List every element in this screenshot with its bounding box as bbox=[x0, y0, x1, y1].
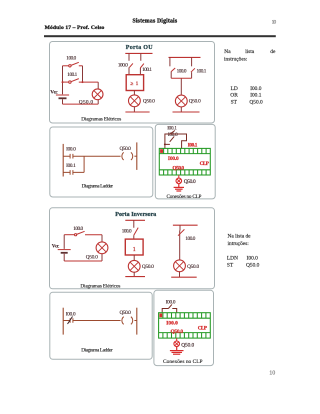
svg-text:Porta Inversora: Porta Inversora bbox=[115, 212, 156, 218]
E1: lamp L5 (Q50.0) bbox=[96, 242, 108, 254]
panel: electrical diagrams OU bbox=[50, 42, 215, 124]
E2: wire gate to lamp bbox=[133, 255, 135, 261]
svg-text:I00.0: I00.0 bbox=[166, 300, 176, 306]
D2: wire gate to lamp bbox=[133, 91, 135, 95]
clp2: output wire bbox=[176, 338, 178, 341]
D3: switch S5 (100.0) bbox=[169, 57, 171, 66]
svg-text:100.1: 100.1 bbox=[197, 69, 207, 75]
clp1: switch I00.0 wiring bbox=[165, 136, 174, 144]
ladder1: coil Q50.0 bbox=[122, 152, 137, 160]
svg-text:100.0: 100.0 bbox=[73, 226, 83, 232]
svg-text:Conexões no CLP: Conexões no CLP bbox=[167, 194, 202, 200]
svg-text:Diagramas Elétricos: Diagramas Elétricos bbox=[80, 283, 120, 289]
E1: bottom wire bbox=[64, 253, 102, 261]
D1: switch S2 (100.1) bbox=[63, 79, 99, 84]
D1: wire left vertical + branch join bbox=[63, 66, 99, 95]
svg-text:Módulo 17 – Prof. Celso: Módulo 17 – Prof. Celso bbox=[45, 25, 105, 31]
clp1: PLC body U1 bbox=[159, 148, 210, 175]
D1: lamp L1 (Q50.0) bbox=[92, 89, 103, 100]
D2: switch S4 input wire bbox=[139, 53, 141, 74]
svg-text:lista: lista bbox=[245, 49, 255, 55]
panel: CLP connections OU bbox=[155, 124, 215, 198]
E2: switch S8 bbox=[133, 220, 135, 239]
svg-text:100.1: 100.1 bbox=[67, 72, 77, 78]
panel: ladder diagram OU bbox=[50, 127, 153, 197]
E3: top rail bbox=[173, 224, 198, 226]
svg-text:Q50.0: Q50.0 bbox=[120, 146, 132, 152]
svg-text:Q50.0: Q50.0 bbox=[181, 342, 194, 348]
svg-text:Q50.0: Q50.0 bbox=[143, 99, 155, 105]
svg-text:100.0: 100.0 bbox=[177, 69, 187, 75]
D1: junction dots bbox=[62, 81, 64, 83]
clp1: ground bbox=[174, 184, 184, 192]
panel: electrical diagrams inversora bbox=[50, 208, 215, 289]
svg-text:10: 10 bbox=[272, 20, 277, 26]
svg-text:Q50.0: Q50.0 bbox=[120, 310, 132, 316]
E2: lamp L6 (Q50.0) bbox=[128, 260, 140, 272]
D3: join wires bbox=[171, 72, 191, 95]
svg-text:100.0: 100.0 bbox=[185, 236, 195, 242]
svg-text:Q50.0: Q50.0 bbox=[246, 262, 260, 268]
svg-text:LD: LD bbox=[231, 86, 238, 92]
E2: bottom rail bbox=[133, 272, 135, 276]
svg-text:Porta OU: Porta OU bbox=[126, 45, 153, 51]
E2: top rail bbox=[125, 219, 145, 221]
svg-text:Q50.0: Q50.0 bbox=[184, 179, 196, 185]
D2: lamp L2 (Q50.0) bbox=[129, 95, 141, 107]
E1: top wire with switch S7 bbox=[64, 231, 102, 235]
svg-text:≥ 1: ≥ 1 bbox=[130, 81, 138, 87]
D2: OR gate box bbox=[126, 75, 143, 91]
D1: switch S1 (100.0) bbox=[63, 62, 83, 67]
D3: top rail bbox=[169, 56, 201, 58]
svg-text:I00.1: I00.1 bbox=[188, 142, 198, 148]
panel: ladder diagram inversora bbox=[50, 292, 152, 359]
svg-text:Q50.0: Q50.0 bbox=[79, 99, 94, 105]
clp1: output wire bbox=[178, 175, 180, 178]
header rule bbox=[44, 35, 276, 37]
clp1: junction dot bbox=[164, 143, 166, 145]
ladder2: right rail bbox=[136, 308, 138, 335]
svg-text:Vcc: Vcc bbox=[52, 244, 60, 250]
D1: wire bottom bbox=[63, 99, 99, 104]
svg-text:Q50.0: Q50.0 bbox=[187, 264, 199, 270]
svg-text:I00.0: I00.0 bbox=[166, 320, 178, 326]
ladder2: NC contact slash bbox=[68, 317, 73, 325]
E3: bottom rail bbox=[179, 272, 181, 278]
svg-text:Vcc: Vcc bbox=[50, 89, 58, 95]
svg-text:10: 10 bbox=[269, 370, 275, 376]
svg-text:ST: ST bbox=[231, 100, 238, 106]
D3: bottom rail bbox=[180, 107, 182, 112]
svg-text:Diagramas Elétricos: Diagramas Elétricos bbox=[81, 116, 121, 122]
ladder1: contact I00.0 bbox=[63, 154, 120, 159]
svg-text:instruções:: instruções: bbox=[224, 57, 248, 63]
ladder1: right rail bbox=[136, 142, 138, 170]
panel: CLP connections inversora bbox=[154, 290, 214, 365]
svg-text:I00.1: I00.1 bbox=[250, 93, 262, 99]
svg-text:Diagrama Ladder: Diagrama Ladder bbox=[81, 347, 113, 353]
svg-text:I00.0: I00.0 bbox=[247, 256, 259, 262]
svg-text:I00.1: I00.1 bbox=[66, 163, 76, 169]
svg-text:Q50.0: Q50.0 bbox=[249, 100, 263, 106]
clp1: switch I00.1 wiring bbox=[165, 131, 187, 149]
ladder2: coil Q50.0 bbox=[122, 317, 137, 325]
svg-text:I00.0: I00.0 bbox=[250, 86, 262, 92]
D3: lamp L3 (Q50.0) bbox=[175, 95, 187, 107]
svg-text:100.1: 100.1 bbox=[142, 67, 152, 73]
svg-text:I00.0: I00.0 bbox=[66, 147, 76, 153]
ladder2: NC contact I00.0 bbox=[63, 318, 120, 323]
svg-text:1: 1 bbox=[133, 247, 136, 253]
svg-text:Diagrama Ladder: Diagrama Ladder bbox=[82, 184, 114, 190]
svg-text:100.0: 100.0 bbox=[118, 63, 128, 69]
clp1: pin1 mark bbox=[160, 149, 163, 153]
svg-text:Na lista de: Na lista de bbox=[228, 234, 252, 240]
clp2: lamp L8 (Q50.0) bbox=[174, 341, 180, 347]
svg-text:100.0: 100.0 bbox=[66, 56, 76, 62]
clp2: PLC body U2 bbox=[159, 313, 211, 338]
E1: right wire top bbox=[101, 235, 103, 243]
svg-text:I00.0: I00.0 bbox=[168, 156, 179, 162]
svg-text:intruções:: intruções: bbox=[228, 241, 250, 247]
E1: battery B2 bbox=[58, 250, 71, 253]
ladder1: left rail bbox=[62, 144, 64, 177]
ladder2: left rail bbox=[62, 308, 64, 335]
svg-text:100.0: 100.0 bbox=[122, 229, 132, 235]
D2: top rail bbox=[125, 52, 152, 54]
svg-text:Conexões no CLP: Conexões no CLP bbox=[163, 359, 203, 365]
clp2: ground bbox=[170, 347, 184, 354]
D1: battery B1 bbox=[56, 95, 69, 98]
svg-text:Na: Na bbox=[224, 49, 231, 55]
svg-text:I00.1: I00.1 bbox=[167, 126, 177, 132]
E2: inverter gate box bbox=[125, 239, 143, 255]
svg-text:Q50.0: Q50.0 bbox=[142, 264, 154, 270]
D3: switch S6 (100.1) bbox=[191, 57, 193, 66]
E1: left wire bbox=[63, 235, 65, 249]
svg-text:CLP: CLP bbox=[198, 326, 208, 332]
svg-text:Q50.0: Q50.0 bbox=[189, 99, 201, 105]
ladder1: parallel branch contact I00.1 bbox=[63, 156, 84, 175]
svg-text:I00.0: I00.0 bbox=[66, 311, 76, 317]
svg-text:CLP: CLP bbox=[200, 161, 210, 167]
svg-text:Q50.0: Q50.0 bbox=[171, 329, 184, 335]
clp1: lamp L4 (Q50.0) bbox=[176, 178, 182, 184]
clp2: pin1 mark bbox=[159, 314, 162, 318]
E3: lamp L7 (Q50.0) bbox=[174, 260, 186, 272]
E3: switch S9 (NC) bbox=[179, 225, 181, 260]
clp2: switch I00.0 wiring bbox=[162, 304, 177, 312]
svg-text:de: de bbox=[270, 49, 276, 55]
svg-text:OR: OR bbox=[230, 93, 238, 99]
D2: bottom rail bbox=[133, 107, 135, 112]
svg-text:Q50.0: Q50.0 bbox=[86, 255, 98, 261]
svg-text:LDN: LDN bbox=[227, 256, 238, 262]
svg-text:ST: ST bbox=[227, 262, 234, 268]
D2: switch S3 input wire bbox=[128, 53, 130, 74]
svg-text:Q50.0: Q50.0 bbox=[172, 165, 184, 171]
svg-text:Sistemas Digitais: Sistemas Digitais bbox=[133, 19, 178, 25]
